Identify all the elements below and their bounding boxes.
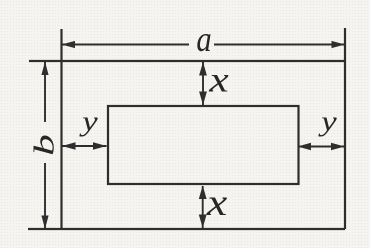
outer plate top edge (extended left as extension line for b) [29, 60, 345, 62]
svg-text:x: x [208, 59, 229, 100]
dimension line x top [202, 62, 204, 105]
dimension line a (right segment) [214, 44, 345, 46]
arrowhead y left outer [62, 142, 76, 150]
arrowhead x bottom down [199, 215, 207, 229]
arrowhead a left [62, 41, 76, 48]
outer plate bottom edge (extended left as extension line for b) [28, 228, 345, 230]
svg-text:y: y [318, 104, 338, 137]
outer plate left edge (extended up as extension line for a) [60, 29, 62, 229]
arrowhead y right outer [331, 143, 345, 151]
arrowhead x top up [199, 62, 207, 76]
arrowhead x bottom up [199, 186, 207, 200]
dimension line a (left segment) [62, 44, 190, 46]
dimension line b (upper segment) [44, 62, 46, 123]
arrowhead y left inner [93, 142, 107, 150]
inner cutout rectangle [108, 106, 299, 184]
dimension line b (lower segment) [44, 163, 46, 229]
arrowhead b down [41, 216, 48, 230]
arrowhead a right [332, 41, 346, 48]
svg-text:x: x [206, 181, 228, 224]
arrowhead y right inner [298, 143, 312, 151]
outer plate right edge (extended up as extension line for a) [344, 28, 346, 229]
arrowhead x top down [199, 92, 207, 106]
arrowhead b up [41, 62, 48, 76]
dimension line x bottom [202, 186, 204, 228]
svg-text:a: a [196, 20, 211, 60]
dimension line y left [62, 145, 107, 147]
svg-text:b: b [28, 134, 59, 156]
dimension line y right [298, 146, 345, 148]
svg-text:y: y [79, 104, 99, 137]
